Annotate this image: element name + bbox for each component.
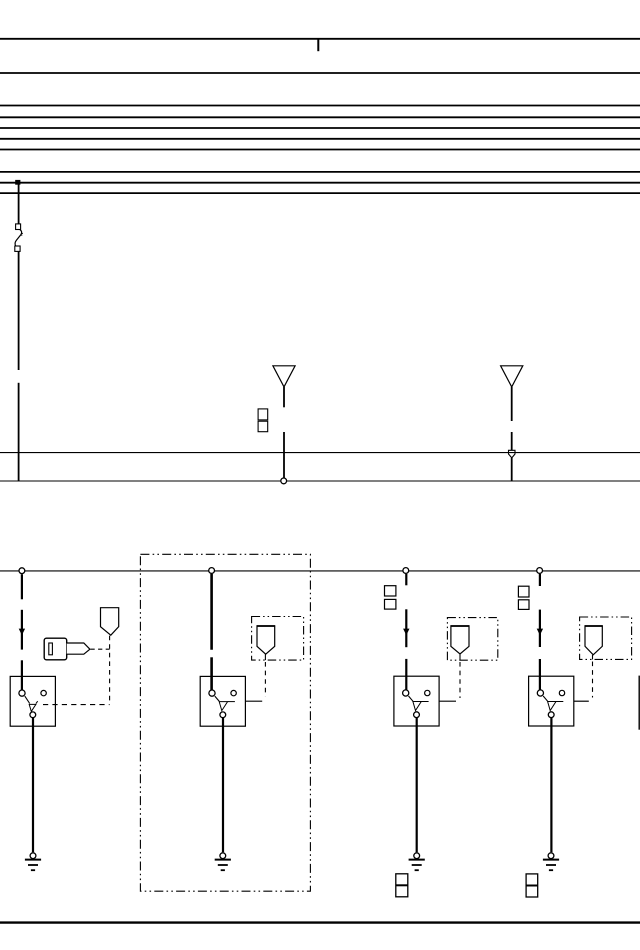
pennant flag P3 xyxy=(451,626,470,660)
wire branch4 seg1 xyxy=(539,574,541,586)
flow arrow branch3 xyxy=(403,629,409,636)
pennant flag P4 xyxy=(585,626,603,659)
connector triangle T1 xyxy=(273,366,295,387)
dash-dot enclosure (component group) xyxy=(140,554,310,891)
wire code squares branch3 xyxy=(385,586,396,596)
connector triangle T2 xyxy=(501,366,523,387)
lead into switch S3 xyxy=(439,700,456,702)
dashed stem P1 down xyxy=(109,636,111,702)
ground G3 xyxy=(409,853,425,870)
dashed link key to P1 stem xyxy=(91,648,110,650)
node tap on rail 30 xyxy=(317,39,319,51)
wire T1 lower xyxy=(283,432,285,481)
ground G4 xyxy=(543,853,559,870)
wire branch3 seg1 xyxy=(405,574,407,586)
wire code squares branch4 xyxy=(518,586,529,597)
bus line a xyxy=(0,105,640,107)
switch box S2 xyxy=(200,676,245,726)
wire below T2 xyxy=(511,387,513,421)
lead into switch S2 xyxy=(245,700,262,702)
switch box S3 xyxy=(394,676,439,726)
pennant box P4 xyxy=(580,617,632,659)
partial switch box S5 at right edge xyxy=(638,676,640,730)
connector code squares under G4 xyxy=(526,874,538,897)
connector code squares under G3 xyxy=(396,874,408,897)
node N4 on bus xyxy=(537,568,543,574)
connector code squares at T1 xyxy=(258,409,268,420)
junction dot on bus g xyxy=(15,180,20,185)
circuit breaker F1 xyxy=(15,224,23,252)
bus line d xyxy=(0,138,640,140)
wire branch4 seg2 xyxy=(539,610,541,647)
wire branch3 seg3 xyxy=(405,659,407,690)
wire S1 to ground xyxy=(32,718,34,852)
switch box S4 xyxy=(529,676,574,726)
bus line f xyxy=(0,171,640,173)
interior line y452 xyxy=(0,452,640,454)
dashed stem P2 down xyxy=(264,662,266,697)
ground G1 xyxy=(25,853,41,870)
node N3 on bus xyxy=(403,568,409,574)
pennant box P3 xyxy=(447,618,497,661)
wire branch1 seg2 xyxy=(21,610,23,650)
wire S4 to ground xyxy=(550,718,552,853)
dashed stem P4 down xyxy=(592,662,594,698)
wire branch3 seg2 xyxy=(405,609,407,647)
lead into switch S4 xyxy=(574,700,589,702)
wire branch1 seg3 xyxy=(21,660,23,690)
bus line b xyxy=(0,116,640,118)
key symbol (key switch) xyxy=(44,638,90,660)
wire branch2 seg2 xyxy=(210,657,213,690)
wire breaker down (lower) xyxy=(18,383,20,482)
bus line c xyxy=(0,127,640,129)
wire below clip node xyxy=(511,458,513,482)
wire branch4 seg3 xyxy=(539,659,541,690)
wire below T1 xyxy=(283,387,285,407)
wire T2 lower xyxy=(511,432,513,450)
flow arrow branch1 xyxy=(19,629,25,636)
bus line h xyxy=(0,192,640,194)
wire S2 to ground xyxy=(222,718,224,852)
node N1 on bus xyxy=(19,568,25,574)
bus line 15 xyxy=(0,72,640,74)
wire branch1 seg1 xyxy=(21,574,23,599)
wire breaker down (upper) xyxy=(18,252,20,371)
lower bus y571 xyxy=(0,570,640,572)
bus line g (feed) xyxy=(0,182,640,184)
pennant flag P1 xyxy=(101,608,119,636)
bus line e xyxy=(0,149,640,151)
dashed stem P3 down xyxy=(459,662,461,698)
pennant flag P2 xyxy=(257,626,276,660)
wire from junction to breaker xyxy=(18,184,20,224)
node circle on y481 xyxy=(281,478,287,484)
pennant box P2 xyxy=(252,617,304,661)
node N2 on bus xyxy=(209,568,215,574)
dashed lead into switch S1 xyxy=(43,704,110,706)
wire branch2 seg1 xyxy=(210,574,213,650)
flow arrow branch4 xyxy=(537,629,543,636)
ground G2 xyxy=(215,853,231,870)
clip node on line y452 xyxy=(509,450,516,458)
bottom border line xyxy=(0,921,640,923)
interior line y481 xyxy=(0,480,640,482)
bus line 30 (top rail) xyxy=(0,38,640,40)
wire S3 to ground xyxy=(416,718,418,853)
switch box S1 xyxy=(10,676,55,726)
